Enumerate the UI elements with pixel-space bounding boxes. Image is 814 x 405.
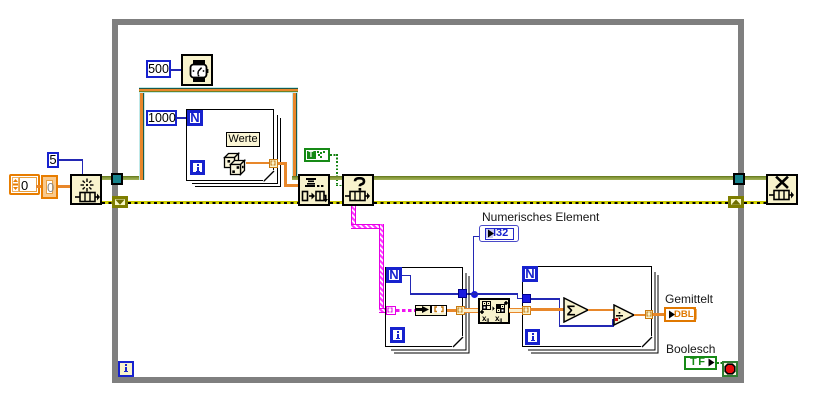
wire tunnel to DBL indicator xyxy=(653,313,664,316)
cluster array wire (magenta) from Get Queue Status xyxy=(351,206,356,227)
label Boolesch xyxy=(666,342,715,356)
wire dice to tunnel xyxy=(246,162,270,164)
blue wire tunnel to divide (around Sigma) xyxy=(531,298,560,300)
coercion dot (red) xyxy=(615,318,618,321)
boolean constant True xyxy=(304,148,330,162)
Reshape Array function xyxy=(478,298,510,324)
for loop 1 stacked pages xyxy=(385,267,475,356)
2D array wire Reshape to loop2 xyxy=(509,308,522,313)
random number dice xyxy=(223,151,248,176)
right shift register (error) xyxy=(728,196,744,208)
array wire tunnel to Sigma xyxy=(530,308,564,311)
Obtain Queue function U1 xyxy=(70,174,102,205)
i terminal (loop 1) xyxy=(390,327,405,343)
queue wire Get Queue Status to right tunnel xyxy=(374,176,734,180)
for loop 2 frame xyxy=(522,266,652,347)
error wire Obtain Queue to shift register xyxy=(102,201,112,204)
numeric constant 5 xyxy=(47,152,59,168)
svg-text:xji: xji xyxy=(495,314,503,322)
i terminal (while loop) xyxy=(118,361,134,377)
queue wire tunnel into loop xyxy=(122,176,142,180)
wire 500 to Wait xyxy=(171,69,181,71)
numeric constant 1000 xyxy=(146,110,177,126)
I32 indicator terminal xyxy=(479,225,519,242)
numeric control 0 (DBL) xyxy=(9,174,40,195)
for loop (dice) dog-ear xyxy=(263,170,275,182)
wire Divide to output tunnel xyxy=(634,314,645,316)
error wire to Release Queue xyxy=(744,201,766,204)
array tunnel (dice loop right) xyxy=(269,159,278,168)
Add Array Elements (Sigma) xyxy=(563,297,590,323)
error wire Get Queue Status to right shift register xyxy=(374,201,728,204)
label Numerisches Element xyxy=(482,210,599,224)
junction dot xyxy=(471,291,478,298)
N terminal (loop 1) xyxy=(386,267,402,283)
while loop border xyxy=(112,19,744,383)
i terminal (dice loop) xyxy=(190,160,205,175)
boolean wire T to Get Queue Status xyxy=(330,154,338,156)
for loop 1 frame xyxy=(385,267,463,347)
array tunnel (loop 1 right, orange) xyxy=(456,306,465,316)
TF indicator terminal xyxy=(684,356,717,370)
cluster wire dashed (magenta) xyxy=(396,309,417,312)
queue wire right vertical (around dice loop) xyxy=(292,87,298,177)
count tunnel (loop 2 left, blue) xyxy=(522,294,531,303)
index/convert function (loop 1) xyxy=(415,305,447,316)
N terminal (loop 2) xyxy=(522,266,538,282)
queue wire stub into Enqueue xyxy=(292,176,299,180)
wire dice tunnel to Enqueue element input xyxy=(278,162,287,165)
numeric constant 500 xyxy=(146,60,171,78)
for loop (dice) frame xyxy=(186,109,274,181)
wire index to tunnel (loop 1) xyxy=(447,309,457,312)
Get Queue Status function xyxy=(342,174,374,206)
wire numeric control to constant xyxy=(36,185,44,188)
wire 1000 to N xyxy=(177,117,187,119)
error wire across loop xyxy=(128,201,298,204)
left shift register (error) xyxy=(112,196,128,208)
svg-text:Σ: Σ xyxy=(567,303,576,320)
2D array tunnel (loop 2 left, orange) xyxy=(522,306,531,316)
left queue tunnel (teal) xyxy=(111,173,123,185)
right queue tunnel (teal) xyxy=(733,173,745,185)
wire 5 to Obtain Queue xyxy=(59,159,83,161)
Release Queue function xyxy=(766,174,798,205)
wire N to count tunnel (loop 1) xyxy=(402,275,411,277)
for loop 2 stacked pages xyxy=(522,266,662,356)
output tunnel (loop 2 right, orange) xyxy=(645,310,654,319)
error wire Enqueue to Get Queue Status xyxy=(330,201,342,204)
queue wire left vertical (around dice loop) xyxy=(139,87,145,180)
2D array wire loop1 to Reshape xyxy=(464,308,478,313)
numeric constant 0 (orange, grayed) xyxy=(41,175,58,199)
DBL indicator terminal xyxy=(664,307,696,322)
wire Sigma to Divide xyxy=(588,309,614,311)
wire I32 down to junction xyxy=(474,236,479,238)
count tunnel (loop 1 right, blue) xyxy=(458,289,467,298)
queue wire to Release Queue xyxy=(745,176,766,180)
cluster array tunnel (loop 1 left, magenta) xyxy=(386,306,396,316)
label Gemittelt xyxy=(665,292,713,306)
label Werte xyxy=(226,132,260,147)
Wait (ms) function xyxy=(181,54,213,86)
wire junction to loop tunnels xyxy=(466,293,518,295)
svg-text:xii: xii xyxy=(482,314,490,322)
i terminal (loop 2) xyxy=(525,329,540,345)
for loop 2 dog-ear xyxy=(641,336,653,348)
for loop (dice) stacked pages xyxy=(186,109,283,189)
Divide function xyxy=(613,304,636,326)
queue wire Enqueue to Get Queue Status xyxy=(330,176,342,180)
queue wire Obtain Queue to left tunnel xyxy=(102,176,112,180)
queue wire top horizontal (around dice loop) xyxy=(139,87,298,93)
wire constant 0 to Obtain Queue xyxy=(58,185,70,188)
for loop 1 dog-ear xyxy=(452,336,464,348)
N terminal (dice loop) xyxy=(187,110,203,126)
Enqueue Element function xyxy=(298,174,330,206)
boolean wire TF to loop condition xyxy=(717,362,723,364)
loop condition terminal (stop) xyxy=(722,361,738,377)
